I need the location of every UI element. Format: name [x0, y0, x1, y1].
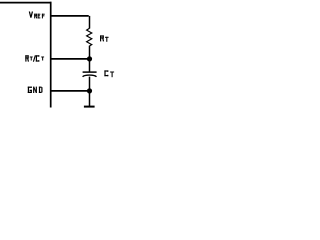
pin label GND — [28, 87, 43, 93]
wire resistor bottom to node — [89, 46, 91, 59]
capacitor CT top plate — [83, 71, 97, 73]
capacitor CT bottom plate (curved) — [83, 75, 97, 77]
IC box U1 right edge — [50, 2, 52, 108]
background — [0, 0, 125, 110]
pin label VREF — [29, 12, 44, 19]
ground symbol bar — [84, 106, 95, 108]
wire VREF pin to resistor top — [52, 15, 89, 17]
wire capacitor bottom to GND node — [89, 77, 91, 91]
node junction dot (RT/CT net) — [87, 56, 92, 61]
wire RT/CT pin to node — [52, 58, 89, 60]
wire node to capacitor top — [89, 59, 91, 72]
wire node to ground symbol — [89, 91, 91, 106]
IC box U1 top edge — [0, 2, 52, 4]
resistor RT zigzag — [87, 28, 92, 46]
wire GND pin to node — [52, 90, 89, 92]
label CT — [104, 70, 114, 77]
pin label RT/CT — [25, 55, 44, 61]
label RT — [100, 35, 109, 41]
node junction dot (GND net) — [87, 88, 92, 93]
